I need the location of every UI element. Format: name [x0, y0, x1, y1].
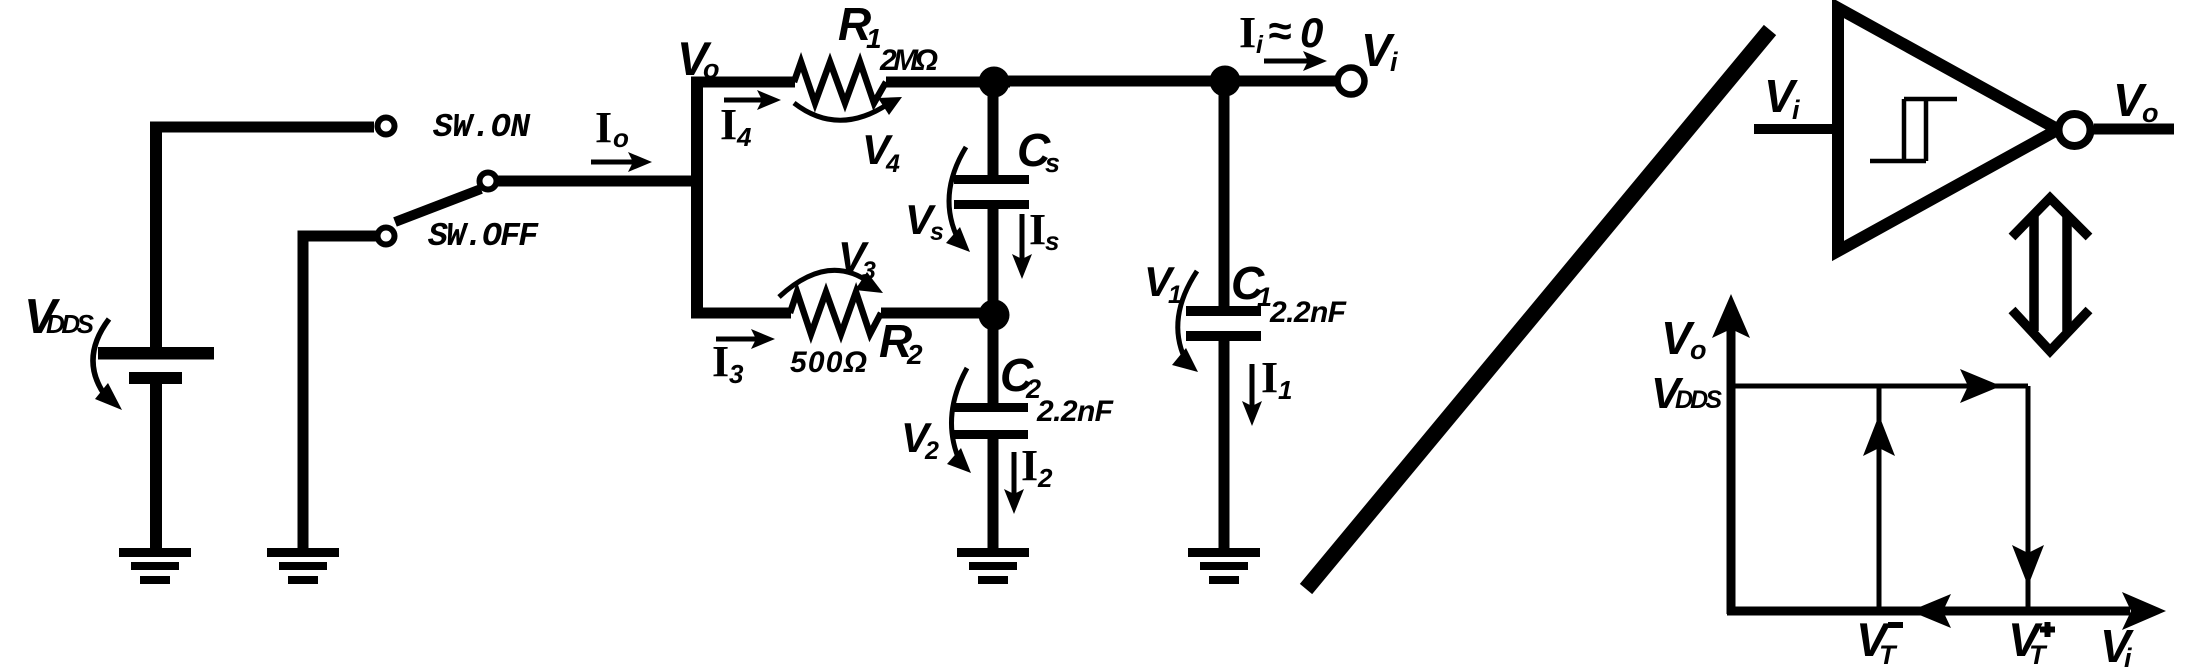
svg-text:500Ω: 500Ω	[790, 346, 867, 379]
graph arrow down on right vertical	[2012, 545, 2044, 586]
voltage arrow VDDS	[93, 319, 109, 398]
wire node B to C1	[1219, 81, 1230, 307]
current arrow Io	[591, 160, 634, 165]
wire battery bottom vertical	[150, 383, 162, 549]
battery VDDS plate negative	[129, 372, 182, 384]
wire node B to Vi terminal	[1225, 76, 1336, 87]
wire switch to node Vo	[497, 176, 702, 187]
resistor R2	[790, 292, 881, 334]
wire Vo to R2	[691, 308, 791, 319]
current arrow Ii	[1264, 59, 1308, 64]
current arrow I1	[1250, 364, 1255, 406]
svg-text:0: 0	[1300, 9, 1323, 56]
svg-text:i: i	[1390, 47, 1398, 77]
wire R2 to node C	[881, 308, 1000, 319]
svg-text:I: I	[1029, 205, 1046, 254]
graph hysteresis left vertical	[1877, 386, 1882, 611]
graph y-axis Vo	[1727, 325, 1736, 614]
svg-text:≈: ≈	[1268, 7, 1291, 54]
svg-text:4: 4	[736, 122, 752, 152]
current arrow Is	[1020, 214, 1025, 259]
graph arrow up on left vertical	[1863, 415, 1895, 456]
ground C2	[957, 548, 1029, 584]
wire Vo vertical	[691, 82, 703, 313]
wire battery left vertical	[150, 122, 162, 350]
wire inverter input	[1754, 124, 1840, 134]
ground C1	[1188, 548, 1260, 584]
svg-text:1: 1	[1278, 375, 1292, 405]
node A junction dot	[979, 67, 1010, 98]
inverter hysteresis symbol	[1870, 99, 1957, 161]
separator diagonal line	[1306, 30, 1770, 589]
inverter U1 triangle	[1838, 8, 2058, 251]
svg-text:3: 3	[729, 359, 744, 389]
voltage arrow V3	[779, 270, 870, 297]
svg-text:4: 4	[885, 150, 900, 178]
voltage arrow V4	[794, 103, 888, 120]
svg-text:I: I	[720, 100, 737, 149]
resistor R1	[794, 62, 886, 103]
graph x-axis Vi	[1727, 607, 2130, 616]
voltage arrow Vs	[949, 147, 966, 241]
wire inverter output	[2094, 124, 2174, 135]
capacitor C2 plate top	[953, 403, 1028, 412]
current arrow I3	[716, 337, 757, 342]
graph hysteresis right vertical	[2026, 386, 2031, 611]
svg-text:o: o	[2142, 98, 2159, 128]
wire C2 to ground	[988, 439, 999, 549]
capacitor C1 plate top	[1186, 306, 1261, 316]
graph arrow right on top segment	[1960, 369, 2001, 403]
current arrow I4	[724, 98, 763, 103]
svg-text:o: o	[1690, 335, 1707, 365]
wire Vo to R1	[691, 77, 795, 88]
wire node A to Cs	[988, 82, 999, 176]
svg-text:2.2nF: 2.2nF	[1036, 395, 1114, 428]
battery VDDS plate positive	[98, 347, 214, 360]
svg-text:i: i	[1792, 95, 1800, 125]
equivalence double arrow	[2012, 198, 2089, 351]
svg-text:i: i	[2124, 643, 2132, 667]
svg-text:o: o	[613, 123, 629, 153]
svg-text:I: I	[595, 103, 612, 152]
svg-text:2MΩ: 2MΩ	[879, 44, 938, 77]
svg-text:2: 2	[924, 437, 939, 465]
node SW.ON terminal	[378, 118, 395, 135]
svg-text:I: I	[1021, 441, 1038, 490]
switch blade	[395, 189, 481, 222]
capacitor C2 plate bottom	[953, 430, 1028, 439]
svg-text:I: I	[712, 337, 729, 386]
svg-text:s: s	[930, 218, 944, 246]
wire node C to C2	[988, 315, 999, 404]
svg-text:I: I	[1261, 353, 1278, 402]
switch pole	[480, 173, 497, 190]
svg-text:DDS: DDS	[46, 309, 95, 339]
svg-text:i: i	[1256, 31, 1264, 59]
svg-text:T: T	[2029, 640, 2048, 667]
svg-text:s: s	[1045, 148, 1060, 178]
svg-text:I: I	[1239, 8, 1256, 57]
voltage arrow V1	[1178, 271, 1197, 359]
wire battery top horizontal	[156, 122, 374, 133]
svg-text:DDS: DDS	[1675, 386, 1722, 414]
svg-text:T: T	[1879, 640, 1898, 667]
graph arrow left on x-axis return	[1910, 594, 1951, 628]
svg-text:3: 3	[862, 257, 876, 285]
svg-text:2: 2	[906, 339, 923, 370]
svg-text:s: s	[1045, 226, 1059, 256]
capacitor Cs plate bottom	[954, 200, 1029, 209]
svg-text:SW.ON: SW.ON	[433, 109, 531, 146]
wire Cs to node C	[988, 209, 999, 315]
ground SW.OFF	[267, 548, 339, 584]
current arrow I2	[1012, 452, 1017, 494]
voltage arrow V2	[951, 368, 967, 462]
node SW.OFF terminal	[378, 228, 395, 245]
ground battery	[119, 548, 191, 584]
capacitor C1 plate bottom	[1186, 331, 1261, 341]
graph hysteresis top segment	[1731, 384, 2028, 389]
wire C1 to ground	[1219, 341, 1230, 549]
node B junction dot	[1210, 66, 1241, 97]
inverter inversion bubble	[2059, 114, 2091, 146]
svg-text:2: 2	[1037, 463, 1053, 493]
node Vi terminal	[1338, 68, 1365, 95]
capacitor Cs plate top	[954, 175, 1029, 184]
wire node A to node B	[994, 76, 1225, 87]
wire SW.OFF to ground	[303, 236, 376, 549]
wire R1 to node A	[886, 77, 1010, 88]
svg-text:SW.OFF: SW.OFF	[428, 218, 539, 255]
svg-text:1: 1	[1168, 281, 1182, 309]
svg-text:2.2nF: 2.2nF	[1269, 296, 1347, 329]
node C junction dot	[979, 300, 1010, 331]
